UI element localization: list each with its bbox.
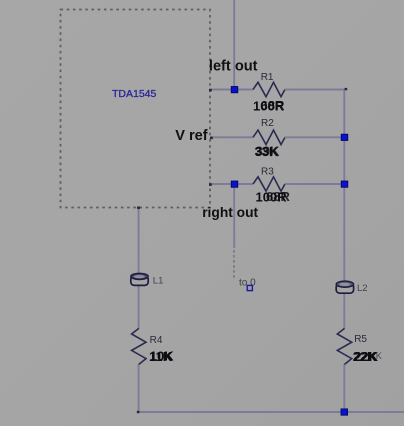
svg-text:100R: 100R <box>253 98 285 113</box>
IC U1 dashed outline box TDA1545 <box>61 10 211 208</box>
junction node bus-bottom rail <box>341 409 348 415</box>
svg-text:L1: L1 <box>153 275 164 286</box>
label R5 value 22K (double printed, old K visible) <box>353 349 383 364</box>
wire L1 to R4 <box>138 284 140 329</box>
junction node bus-R2 <box>341 134 348 140</box>
label R1 value 100R (double printed over 68R) <box>253 98 285 113</box>
pin tick box left pin (bottom of U1) <box>137 207 140 209</box>
resistor R5 vertical zigzag <box>337 328 351 364</box>
wire R3 row left (pin to resistor) <box>210 183 253 185</box>
wire R3 row right (resistor to bus) <box>285 183 345 185</box>
tick bus top corner <box>345 88 348 90</box>
tick bottom-left corner <box>137 411 140 413</box>
svg-text:R2: R2 <box>261 118 274 129</box>
node to-0 open square <box>247 285 252 290</box>
wire R1 row right (resistor to bus corner) <box>285 89 346 91</box>
inductor L2 <box>336 281 353 293</box>
svg-text:right out: right out <box>202 205 258 220</box>
label R2 value 33K (double printed over 39K) <box>255 144 280 159</box>
svg-text:R4: R4 <box>150 335 163 346</box>
wire bottom rail horizontal <box>139 411 404 413</box>
resistor R2 zigzag <box>253 130 285 144</box>
svg-text:V ref: V ref <box>175 128 208 144</box>
junction node right-out (R3 row) <box>231 181 238 187</box>
svg-text:R5: R5 <box>354 334 367 345</box>
svg-text:100R: 100R <box>256 189 288 204</box>
wire dashed stub to node to-0 <box>233 250 235 280</box>
wire left branch vertical (box pin to L1) <box>138 208 140 275</box>
label R4 value 11K (double printed) <box>149 349 174 364</box>
wire right bus R5 to bottom rail <box>343 364 345 412</box>
svg-text:L2: L2 <box>357 283 368 294</box>
wire top vertical into left-out node <box>233 0 235 90</box>
svg-text:11K: 11K <box>149 349 173 364</box>
pin tick R2 row at box edge <box>210 137 213 140</box>
wire from right-out node down <box>233 184 235 248</box>
wire R2 row right (resistor to bus) <box>285 136 345 138</box>
wire right bus L2 to R5 <box>343 293 345 329</box>
svg-text:R3: R3 <box>261 166 274 177</box>
junction node left-out (R1 row) <box>231 87 238 93</box>
svg-text:R1: R1 <box>261 72 274 83</box>
pin tick R3 row at box edge <box>209 183 212 186</box>
wire R1 row left (pin to resistor) <box>210 89 253 91</box>
svg-text:33K: 33K <box>255 144 279 159</box>
wire R2 row left (pin to resistor) <box>211 136 253 138</box>
svg-text:TDA1545: TDA1545 <box>112 88 157 100</box>
resistor R3 zigzag <box>253 177 285 191</box>
inductor L1 <box>131 273 148 285</box>
svg-text:left out: left out <box>209 59 258 75</box>
junction node bus-R3 <box>341 181 348 187</box>
svg-text:K: K <box>376 351 383 361</box>
label R3 value 100R (double printed over 68R) <box>256 189 291 204</box>
wire R4 to bottom rail <box>138 364 140 412</box>
resistor R4 vertical zigzag <box>132 328 146 364</box>
pin tick R1 row at box edge <box>209 89 212 92</box>
svg-text:22K: 22K <box>353 349 377 364</box>
resistor R1 zigzag <box>253 82 285 96</box>
wire right bus vertical upper <box>343 90 345 285</box>
